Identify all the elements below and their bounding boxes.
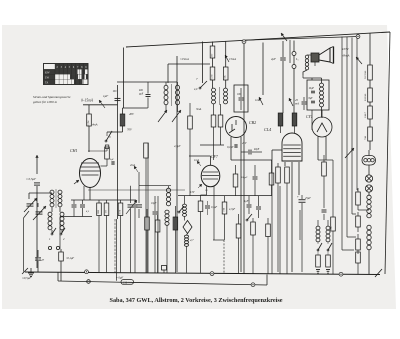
wire bus drop x148	[147, 143, 149, 273]
tube CH1 pin wires	[89, 188, 91, 201]
wire CY1 to chain	[318, 159, 333, 161]
CF7 cathode arrow	[198, 184, 202, 188]
wire hook to filter	[302, 75, 304, 78]
capacitor mid 155	[153, 211, 158, 213]
svg-text:3mA: 3mA	[196, 107, 202, 111]
svg-text:CB2: CB2	[249, 120, 256, 125]
heater tap resistor 3	[356, 239, 361, 250]
heater tap resistor 4	[356, 252, 361, 263]
antenna down-lead wire	[36, 186, 38, 268]
border corner drop	[123, 48, 125, 109]
tube CH1 cathode arrow	[74, 180, 79, 184]
dark resistor 175	[174, 217, 178, 230]
mains ground a	[316, 269, 320, 271]
filter choke winding	[320, 83, 324, 87]
svg-text:4,7μF: 4,7μF	[174, 145, 181, 148]
wire vertical 280	[279, 186, 281, 274]
CY1 anode wire	[321, 110, 323, 118]
switch lever b	[178, 211, 180, 213]
svg-text:TA: TA	[45, 81, 48, 84]
resistor mid x146	[144, 143, 149, 158]
diamond indicator	[183, 221, 192, 234]
svg-text:4mA: 4mA	[92, 123, 98, 127]
socket E	[56, 246, 59, 249]
barretter lamp assembly	[362, 156, 376, 166]
padder resistors	[211, 115, 216, 127]
grid return line	[71, 199, 136, 201]
dial lamp 2	[365, 185, 372, 192]
trimmer capacitor 1	[128, 204, 134, 206]
chain connecting wires	[369, 33, 371, 65]
svg-text:gelten für 1000 m: gelten für 1000 m	[33, 100, 58, 104]
vertical wire x282	[282, 41, 284, 57]
meter break arrow	[99, 100, 105, 108]
grid resistor CL4 b	[285, 167, 290, 183]
antenna coil L2	[58, 190, 62, 194]
mains dropper resistor NV3	[368, 106, 373, 119]
CF7 cathode resistor	[198, 201, 203, 212]
wire horizontal y240	[213, 239, 224, 241]
wires band coils	[51, 207, 53, 212]
core line input filter	[55, 189, 57, 208]
wire resistor to tube1	[88, 126, 90, 152]
capacitor at CF7 cathode	[205, 205, 210, 207]
resistor chain 2	[251, 222, 256, 235]
fusible resistor b	[326, 255, 331, 267]
heater chain coil 1	[367, 195, 371, 199]
trimmer capacitor 2	[136, 204, 142, 206]
chain wire lamps	[368, 150, 370, 156]
svg-text:0,3M: 0,3M	[88, 121, 90, 126]
band switch table row KW dark cells	[55, 69, 78, 74]
grid resistor above tube	[105, 147, 110, 159]
band coil L4	[60, 212, 64, 216]
connector circles L2	[292, 52, 296, 56]
node on top bus	[356, 35, 360, 39]
tuning arrow coil 1	[158, 110, 167, 122]
speaker driver magnet	[311, 53, 319, 62]
svg-text:1μF: 1μF	[103, 94, 108, 98]
oscillator coil core	[219, 87, 221, 105]
secondary bus	[58, 281, 267, 285]
speaker cone	[319, 48, 330, 62]
svg-text:43mA: 43mA	[342, 54, 349, 58]
resistor 0,1M right of CY1	[322, 162, 327, 176]
antenna capacitor	[34, 182, 40, 184]
switch small mid	[246, 219, 248, 221]
CB2 pin wires	[230, 137, 232, 160]
svg-text:L₂: L₂	[295, 57, 299, 61]
capacitor box left	[59, 252, 64, 261]
vertical wire x294	[293, 41, 295, 52]
svg-text:41V: 41V	[242, 142, 247, 145]
switch lever 3	[105, 140, 107, 142]
svg-text:70Ω: 70Ω	[364, 136, 367, 140]
svg-text:0–15mA: 0–15mA	[81, 99, 94, 103]
wire vertical 290 top	[289, 40, 291, 63]
resistor below CB2	[233, 174, 238, 187]
main chassis bus	[25, 272, 380, 275]
svg-text:25μF: 25μF	[305, 197, 311, 200]
svg-text:Strom-und Spannungswerte: Strom-und Spannungswerte	[33, 95, 71, 99]
mains dropper resistor NV4	[368, 127, 373, 141]
filter wires	[321, 78, 323, 83]
selector switch b	[327, 249, 329, 251]
svg-text:1M: 1M	[106, 210, 108, 213]
chain bottom wire	[368, 250, 370, 274]
resistor 157	[155, 220, 160, 232]
capacitor 100pF oscillator	[239, 97, 244, 99]
svg-text:≈15mA: ≈15mA	[180, 57, 189, 61]
resistor chain 3	[266, 224, 271, 237]
tube CY1	[312, 117, 332, 137]
svg-text:1μF: 1μF	[244, 200, 249, 203]
svg-text:4,7: 4,7	[190, 239, 194, 242]
schematic top supply bus	[242, 37, 358, 41]
antenna	[36, 155, 38, 174]
cathode electrolytic 25uF	[299, 199, 306, 201]
svg-text:13V: 13V	[190, 191, 195, 194]
switch lever 7	[199, 87, 201, 89]
hatched resistor a	[278, 113, 282, 126]
wire vertical 300	[299, 210, 301, 240]
svg-text:mA: mA	[295, 102, 299, 106]
heater tap links	[342, 249, 354, 251]
capacitor 40pF at CB2	[248, 150, 250, 155]
bus end slash left	[22, 268, 28, 274]
svg-text:0,1M: 0,1M	[212, 75, 214, 80]
svg-text:8μF: 8μF	[309, 97, 314, 100]
wire gang to coils	[28, 193, 30, 199]
node on HT bus at osc	[242, 40, 246, 44]
CL4 grid wire	[272, 149, 282, 151]
screen resistor 0,1M	[118, 203, 123, 216]
wire top of bandfilter	[117, 81, 177, 83]
svg-text:6μF: 6μF	[110, 158, 114, 161]
IF transformer link line	[139, 185, 171, 187]
horizontal link wire y196	[178, 195, 272, 197]
bandfilter core	[171, 84, 173, 106]
tube CL4	[282, 133, 302, 161]
heater chain coil 2	[367, 225, 371, 230]
bus node 3	[339, 272, 343, 276]
svg-text:CF7: CF7	[211, 155, 219, 159]
wire vertical feed 1uF	[117, 85, 119, 219]
socket A	[48, 246, 51, 249]
electrolytic symbols	[311, 90, 315, 92]
svg-text:0,1M: 0,1M	[120, 210, 122, 215]
CY1 pin wires	[317, 136, 319, 160]
anode resistor lower	[210, 67, 215, 80]
svg-text:NV/20Ω: NV/20Ω	[364, 70, 367, 79]
screen grid resistor 1,5M	[222, 202, 227, 214]
switch arrow heater	[345, 148, 354, 158]
svg-text:CL4: CL4	[264, 127, 271, 132]
voltage selector coil a	[316, 226, 320, 230]
svg-text:40pF: 40pF	[254, 148, 260, 151]
oscillator coil 1	[212, 88, 216, 92]
secondary bus node	[251, 283, 255, 287]
oscillator coil 2	[224, 88, 228, 92]
svg-text:CH1: CH1	[70, 148, 78, 153]
resistor 0,3M anode tube1	[87, 114, 92, 126]
lower choke coil	[185, 235, 189, 238]
svg-text:15mA: 15mA	[229, 57, 236, 61]
capacitor right 258	[256, 206, 261, 208]
filter block rectangle	[307, 80, 329, 110]
band switch table label column dark	[44, 69, 55, 84]
grid leak resistor 1M	[104, 203, 109, 216]
wire bus drop x115 dashed	[114, 219, 116, 273]
resistor 3mA feed	[188, 116, 193, 129]
capacitor k2	[80, 204, 85, 206]
band switch contact 1	[51, 233, 53, 235]
oscillator feed vertical	[202, 42, 204, 84]
IF transformer coil lower	[165, 210, 169, 214]
CL4 pin wires	[284, 162, 286, 166]
mains ground b	[326, 269, 330, 271]
band switch table row LW dark cells	[70, 74, 78, 79]
band switch table frame	[44, 64, 89, 85]
svg-text:0,1μF: 0,1μF	[227, 146, 234, 149]
wire y64 link	[168, 63, 210, 65]
bypass capacitor	[133, 204, 138, 206]
capacitor 400pF	[146, 94, 151, 96]
schematic right border line	[385, 32, 390, 274]
screen resistor	[223, 67, 228, 80]
trimmer arrow	[126, 200, 137, 214]
HT feed vertical x244	[243, 44, 245, 274]
grid cap pad	[105, 145, 109, 149]
voltage selector coil b	[326, 226, 330, 230]
wire speaker drops	[262, 43, 264, 96]
wire horizontal y160	[231, 159, 272, 161]
cathode resistor 5000	[97, 203, 102, 216]
wires resistors down	[280, 126, 282, 133]
capacitor left of box	[302, 101, 307, 103]
bus node 1	[85, 270, 89, 274]
mains dropper resistor NV2	[368, 88, 373, 102]
band switch table header dark cells	[55, 64, 88, 69]
IF transformer coil upper	[166, 188, 170, 192]
svg-text:+: +	[297, 195, 299, 199]
svg-text:1mA: 1mA	[194, 159, 199, 162]
secondary bus risers	[57, 272, 59, 281]
band switch contact 2	[60, 233, 62, 235]
wire horizontal AVC bus	[88, 189, 185, 191]
bus end slash right	[375, 269, 382, 277]
svg-text:10μF: 10μF	[151, 202, 157, 205]
wire vertical 272	[271, 160, 273, 274]
svg-text:1,5M: 1,5M	[224, 208, 226, 213]
grid resistor CL4 a	[276, 167, 281, 183]
anode resistor upper	[210, 46, 215, 58]
resistor right 271	[269, 173, 274, 185]
band switch table row TA dark cells	[74, 79, 83, 84]
tuning capacitor 2 (variable)	[36, 211, 43, 213]
svg-text:≈ 6μF: ≈ 6μF	[116, 276, 123, 280]
wire gang down	[23, 218, 25, 272]
svg-text:12Ω/7: 12Ω/7	[364, 111, 367, 118]
fuse resistor 150 on secondary bus	[121, 280, 134, 285]
resistor 100 ohm side	[331, 217, 336, 231]
wires under bandfilter	[165, 105, 167, 112]
tube CH1	[80, 159, 101, 188]
resistor chain 1	[236, 224, 241, 238]
band switch table grid lines	[54, 64, 56, 85]
resistor 40V dropper	[121, 114, 125, 126]
svg-text:47: 47	[41, 258, 45, 262]
svg-text:μμF: μμF	[139, 93, 144, 96]
fusible resistor a	[316, 255, 321, 267]
break arrow on HT rail	[281, 33, 287, 41]
svg-text:80/20Ω: 80/20Ω	[364, 94, 367, 101]
earth ground symbol	[28, 272, 34, 274]
capacitor mid 255	[253, 176, 258, 178]
wire bus drop x158	[157, 196, 159, 273]
capacitor 6uF mid right	[322, 209, 327, 211]
wire bus drop 1	[223, 240, 225, 274]
RF bandfilter coil 2	[176, 85, 180, 90]
capacitor 6uF at tube	[111, 161, 113, 165]
oscillator shield box	[234, 85, 248, 112]
cathode collect line	[60, 216, 92, 218]
svg-text:10μF: 10μF	[309, 87, 315, 90]
RF bandfilter coil 1	[164, 85, 168, 90]
svg-text:5000: 5000	[98, 210, 100, 214]
hatched resistor b	[292, 113, 296, 126]
heater tap resistor 1	[356, 192, 361, 205]
bus node 2	[210, 272, 214, 276]
capacitor under CB2	[234, 144, 236, 148]
break arrow right	[356, 57, 362, 64]
CF7 grid top cap wire	[210, 156, 212, 165]
speaker hook wire	[303, 70, 307, 75]
tube CB2	[226, 117, 247, 138]
band coil L3	[48, 212, 52, 216]
small component on main bus	[162, 266, 167, 271]
svg-text:≈0,1μF: ≈0,1μF	[66, 257, 74, 260]
selector switch a	[317, 249, 319, 251]
tube CF7	[201, 165, 220, 187]
tuning arrow coil 2	[172, 110, 181, 122]
capacitor 47pF	[35, 257, 41, 259]
IF choke coil	[183, 204, 187, 207]
capacitor 1uF detector	[247, 204, 252, 206]
CF7 pin wires	[206, 187, 208, 196]
svg-text:4,7μF: 4,7μF	[229, 208, 236, 211]
resistor 147	[145, 217, 150, 230]
open circle node on secondary bus	[87, 280, 91, 284]
mains dropper resistor NV1	[368, 65, 373, 80]
svg-text:Saba, 347 GWL, Allstrom, 2 Vor: Saba, 347 GWL, Allstrom, 2 Vorkreise, 3 …	[110, 297, 283, 304]
svg-text:150: 150	[123, 282, 128, 285]
wire y145 link	[200, 144, 224, 146]
heater tap resistor 2	[356, 216, 361, 227]
long vertical screen rail	[176, 56, 178, 272]
antenna coil L1	[50, 190, 54, 194]
svg-text:107V: 107V	[342, 47, 350, 51]
svg-text:0,1μF: 0,1μF	[211, 206, 218, 209]
meter wire	[83, 104, 118, 106]
wire verticals top right drops	[341, 37, 343, 251]
speaker cone rim	[333, 47, 335, 64]
tuning capacitor 1 (variable)	[27, 203, 34, 205]
speaker voice coil	[305, 55, 308, 58]
svg-text:10μμF: 10μμF	[241, 176, 248, 179]
svg-text:CY1: CY1	[306, 115, 313, 119]
schematic top border line	[126, 32, 390, 47]
capacitor k1	[72, 204, 77, 206]
wire across oscillator	[123, 107, 148, 109]
dial lamp 1	[365, 175, 372, 182]
svg-text:2μF: 2μF	[271, 57, 276, 61]
